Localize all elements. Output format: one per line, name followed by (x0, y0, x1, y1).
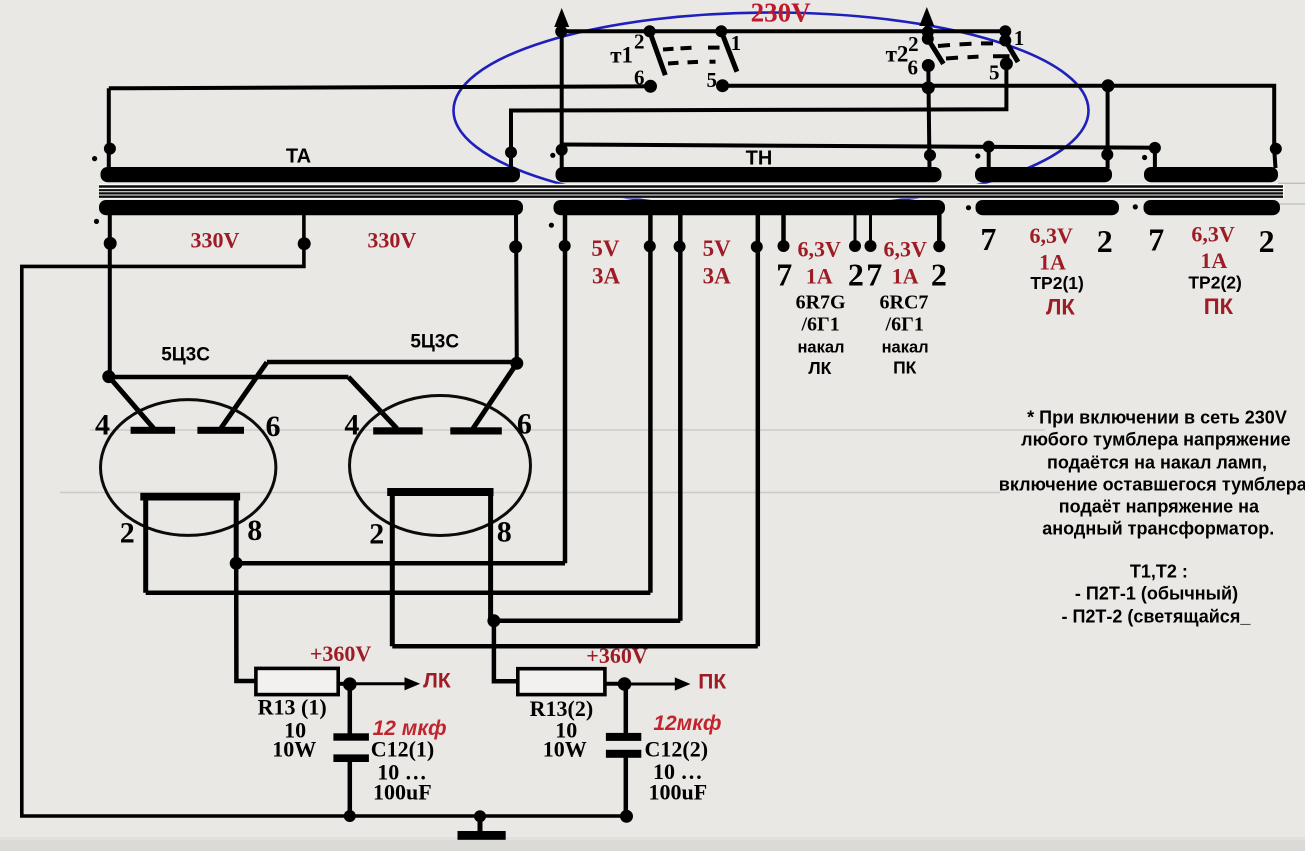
svg-text:включение оставшегося тумблера: включение оставшегося тумблера (999, 474, 1305, 494)
svg-text:- П2Т-2 (светящайся_: - П2Т-2 (светящайся_ (1061, 607, 1251, 627)
wire anode bus left (to tube plates pin4) (109, 375, 349, 380)
node TA secondary center terminal (298, 237, 311, 250)
wire anode bus right (to tube plates pin6) (267, 360, 517, 365)
svg-text:подаётся на накал ламп,: подаётся на накал ламп, (1047, 452, 1267, 472)
node C12(1) on ground bus (344, 810, 356, 822)
node TH primary left terminal (556, 144, 568, 156)
svg-text:100uF: 100uF (373, 779, 432, 804)
svg-text:2: 2 (1259, 223, 1275, 259)
phase dot TA secondary (94, 219, 99, 224)
blue 230V ellipse (454, 13, 1089, 209)
svg-text:C12(1): C12(1) (371, 736, 435, 761)
switch T2 pin 6 (922, 59, 935, 72)
wire R13(1) output (338, 682, 352, 686)
switch T1 pin 5 (716, 79, 729, 92)
capacitor C12(1) plate top (333, 733, 369, 740)
svg-text:5: 5 (989, 60, 1000, 84)
capacitor C12(2) plate top (606, 733, 641, 741)
svg-text:ПК: ПК (1204, 294, 1234, 319)
capacitor C12(1) wire top (348, 684, 353, 734)
svg-text:TA: TA (286, 146, 311, 168)
svg-text:накал: накал (797, 338, 844, 356)
svg-text:т2: т2 (886, 42, 909, 67)
svg-text:6: 6 (266, 410, 281, 443)
svg-text:5V: 5V (703, 236, 732, 261)
svg-text:6,3V: 6,3V (798, 237, 842, 262)
wire TP2(2) primary left stub (1153, 148, 1157, 168)
wire TA secondary left tap down (108, 214, 112, 377)
svg-text:3A: 3A (592, 264, 621, 289)
node C12(2) on ground bus (620, 810, 633, 823)
svg-text:2: 2 (848, 257, 864, 293)
tube 1 envelope (5C3S) (101, 400, 276, 536)
svg-text:12мкф: 12мкф (653, 712, 721, 735)
TH tap 6 (6,3V pin 2) (854, 214, 857, 246)
svg-text:1A: 1A (1039, 249, 1066, 274)
svg-text:7: 7 (776, 257, 792, 293)
switch T1 linkage dashes row 2 (668, 62, 716, 64)
svg-text:4: 4 (95, 408, 110, 441)
svg-text:т1: т1 (610, 43, 633, 68)
phase dot TP2(2) primary (1142, 155, 1147, 160)
capacitor C12(2) wire bottom (624, 757, 629, 816)
tube 1 filament leg pin 2 (143, 498, 148, 593)
transformer TP2(2) secondary winding bar (1144, 200, 1281, 215)
svg-text:2: 2 (1097, 223, 1113, 259)
tube 2 anode plate pin 6 (450, 427, 502, 434)
phase dot TH primary (550, 153, 555, 158)
svg-text:230V: 230V (751, 0, 812, 28)
transformer core white band (99, 184, 1284, 199)
svg-text:2: 2 (120, 517, 135, 550)
TH tap 5 (6,3V pin 7) (781, 214, 786, 246)
ground symbol (458, 816, 506, 840)
node tube2 pin8 junction (487, 614, 500, 627)
svg-text:ПК: ПК (698, 670, 726, 693)
wire TP2(2) primary right stub (1274, 149, 1275, 168)
tube 2 filament leg pin 8 (488, 494, 493, 621)
wire line A (mains top) (561, 29, 1005, 33)
svg-text:2: 2 (634, 30, 645, 54)
switch T2 pin 5 (1000, 57, 1013, 70)
node TA primary left terminal (104, 143, 116, 155)
capacitor C12(2) plate bottom (606, 750, 641, 758)
transformer TP2(1) primary winding bar (975, 167, 1112, 182)
tube 1 filament bar (140, 493, 240, 501)
phase dot TH secondary (549, 223, 554, 228)
node R13(1) output junction (343, 677, 357, 691)
svg-text:накал: накал (882, 338, 929, 356)
svg-text:6RC7: 6RC7 (880, 291, 929, 313)
tube 1 anode plate pin 4 (131, 427, 176, 434)
svg-text:1A: 1A (892, 264, 919, 289)
node TA primary right terminal (505, 146, 517, 158)
switch T1 lever pole 1-5 (721, 31, 737, 71)
svg-text:1: 1 (731, 31, 742, 55)
node TP2(1) primary left terminal (983, 141, 995, 153)
tube 2 filament bar (387, 488, 493, 496)
svg-text:100uF: 100uF (648, 779, 707, 804)
TH tap 4 (5V-2 right) (756, 214, 761, 646)
svg-text:ТН: ТН (746, 148, 773, 170)
wire diagonal to tube1 plate 4 (109, 377, 154, 429)
switch T2 lever pole 1-5 (1005, 41, 1018, 63)
svg-text:330V: 330V (190, 228, 239, 253)
faint line stubs right of TP2(2) (1278, 182, 1305, 184)
transformer TA primary winding bar (101, 167, 521, 182)
wire line B left (TA primary left to T1 pin6) (109, 86, 651, 88)
svg-text:10W: 10W (272, 736, 316, 761)
wire R13(2) output (605, 682, 626, 686)
svg-text:4: 4 (344, 409, 359, 442)
node on line B at T2 pin6 vertical (922, 81, 935, 94)
transformer TH primary winding bar (556, 167, 942, 182)
svg-text:1A: 1A (806, 264, 833, 289)
svg-text:2: 2 (908, 32, 919, 56)
svg-text:2: 2 (369, 518, 384, 551)
svg-text:6R7G: 6R7G (796, 291, 846, 313)
wire T2 pin6 down to TH primary right (928, 66, 929, 169)
svg-text:* При включении в сеть 230V: * При включении в сеть 230V (1027, 408, 1287, 428)
wire TH primary left to TP2 primaries left (562, 145, 1155, 148)
svg-text:7: 7 (866, 257, 882, 293)
tube 2 anode plate pin 4 (373, 427, 422, 434)
mains input arrow 2 (919, 7, 934, 42)
switch T1 pin 1 (715, 25, 727, 37)
wire TA secondary center tap (22, 214, 628, 816)
svg-text:8: 8 (247, 514, 262, 547)
svg-text:6,3V: 6,3V (1191, 222, 1235, 247)
note text block (999, 408, 1305, 627)
svg-text:- П2Т-1 (обычный): - П2Т-1 (обычный) (1075, 584, 1238, 604)
tube 1 anode plate pin 6 (197, 427, 244, 434)
svg-text:ТР2(2): ТР2(2) (1188, 272, 1241, 292)
wire TP2(1) primary right vertical (1106, 86, 1110, 168)
wire diagonal to tube2 plate 6 (473, 363, 517, 428)
transformer TP2(1) secondary winding bar (976, 200, 1120, 215)
switch T1 pin 6 (644, 80, 657, 93)
TH tap 8 (6,3V-2 pin 2) (937, 214, 942, 246)
capacitor C12(1) wire bottom (348, 761, 353, 816)
svg-text:5Ц3С: 5Ц3С (161, 344, 210, 365)
svg-text:любого тумблера напряжение: любого тумблера напряжение (1021, 429, 1290, 449)
node TP2(2) primary right terminal (1270, 143, 1282, 155)
svg-text:ЛК: ЛК (808, 358, 831, 378)
node line A junction at arrow1 (555, 26, 567, 38)
node TP2(1) primary right terminal (1101, 149, 1113, 161)
transformer TP2(2) primary winding bar (1144, 167, 1278, 182)
TH tap 7 (6,3V-2 pin 7) (869, 214, 872, 246)
TH tap 3 (5V-2 left) (678, 214, 683, 621)
node on line B at TP2(1) right (1102, 79, 1115, 92)
svg-text:5V: 5V (591, 236, 620, 261)
svg-text:/6Г1: /6Г1 (800, 314, 839, 336)
svg-text:1A: 1A (1200, 248, 1227, 273)
svg-text:анодный трансформатор.: анодный трансформатор. (1042, 519, 1274, 539)
wire T2 pin5 down and left to TA primary right (511, 64, 1006, 168)
node TA secondary right terminal (509, 240, 522, 253)
wire tube2 pin8 down to R13(2) (494, 621, 518, 682)
mains input arrow 1 (554, 8, 569, 168)
faint scan line plate level (90, 429, 1045, 431)
svg-text:8: 8 (497, 516, 512, 549)
phase dot TA primary (92, 156, 97, 161)
svg-text:330V: 330V (367, 228, 416, 253)
wire TA secondary right tap down (514, 214, 519, 365)
switch T2 pin 2 (double dot) (922, 26, 934, 38)
node R13(2) output junction (618, 677, 632, 691)
bottom scan shade band (0, 840, 1305, 851)
svg-text:6: 6 (517, 408, 532, 441)
faint scan line cathode level (60, 492, 1000, 494)
node TP2(2) primary left terminal (1149, 142, 1161, 154)
transformer TA secondary winding bar (99, 200, 523, 215)
switch T1 lever pole 2-6 (650, 31, 666, 75)
node tube1 pin8 junction (230, 557, 243, 570)
wire diagonal to tube2 plate 4 (348, 377, 397, 429)
switch T2 linkage dashes row 1 (938, 43, 993, 46)
wire TP2(1) primary left stub (987, 147, 991, 168)
resistor R13(1) (256, 668, 338, 694)
arrow LK output (350, 682, 407, 685)
phase dot TP2(1) secondary (966, 205, 971, 210)
svg-text:C12(2): C12(2) (645, 736, 709, 761)
node anode bus right at TA right tap (510, 357, 523, 370)
capacitor C12(2) wire top (624, 684, 629, 734)
node TA left to plates junction (102, 370, 115, 383)
svg-text:ТР2(1): ТР2(1) (1030, 273, 1083, 293)
svg-text:+360V: +360V (310, 641, 372, 666)
svg-text:Т1,Т2 :: Т1,Т2 : (1130, 561, 1188, 581)
transformer core laminations (99, 187, 1283, 197)
svg-text:6: 6 (908, 56, 919, 80)
svg-text:2: 2 (931, 257, 947, 293)
svg-text:6,3V: 6,3V (884, 237, 928, 262)
svg-text:+360V: +360V (586, 643, 648, 668)
tube 2 envelope (5C3S) (350, 396, 531, 536)
svg-text:ЛК: ЛК (423, 669, 451, 692)
wire line B right (T1 pin5 to TP2(2) right) (723, 86, 1275, 149)
arrow PK output (625, 683, 677, 686)
wire tube1 pin8 to TH tap1 (236, 561, 565, 566)
node ground tap on ground bus (474, 810, 486, 822)
wire tube1 pin2 to TH tap2 (146, 590, 651, 595)
tube 1 filament leg pin 8 (234, 498, 239, 563)
wire diagonal from tube1 plate 6 (221, 362, 267, 428)
svg-text:/6Г1: /6Г1 (885, 314, 924, 336)
node TH primary right terminal (924, 149, 936, 161)
svg-text:ПК: ПК (893, 358, 917, 378)
svg-text:ЛК: ЛК (1046, 295, 1075, 320)
switch T2 linkage dashes row 2 (946, 56, 1010, 58)
svg-text:7: 7 (1148, 221, 1164, 257)
svg-text:1: 1 (1014, 26, 1025, 50)
switch T1 linkage dashes row 1 (663, 48, 720, 50)
switch T2 pin 1 (double dot) (999, 25, 1011, 37)
TH tap 1 (5V left) (563, 214, 568, 563)
TH tap 2 (5V right) (648, 214, 653, 593)
tube 2 filament leg pin 2 (390, 494, 395, 646)
transformer TH secondary winding bar (554, 200, 946, 215)
svg-text:5Ц3С: 5Ц3С (410, 332, 459, 353)
svg-text:6,3V: 6,3V (1030, 223, 1074, 248)
switch T1 pin 2 (644, 25, 656, 37)
wire tube2 pin2 to TH tap4 (392, 644, 758, 649)
phase dot TP2(1) primary (975, 153, 980, 158)
svg-text:подаёт напряжение на: подаёт напряжение на (1059, 497, 1260, 517)
svg-text:3A: 3A (703, 264, 732, 289)
wire TA primary left vertical (107, 88, 111, 168)
svg-text:7: 7 (980, 221, 996, 257)
capacitor C12(1) plate bottom (333, 754, 369, 762)
node TA secondary left terminal (104, 237, 117, 250)
svg-text:5: 5 (707, 68, 718, 92)
wire tube1 pin8 down to R13(1) (236, 563, 256, 681)
svg-text:R13 (1): R13 (1) (258, 695, 327, 720)
wire tube2 pin8 to TH tap3 (491, 619, 681, 624)
phase dot TP2(2) secondary (1133, 204, 1138, 209)
svg-text:10W: 10W (543, 736, 587, 761)
resistor R13(2) (518, 669, 605, 695)
switch T2 lever pole 2-6 (928, 39, 944, 64)
